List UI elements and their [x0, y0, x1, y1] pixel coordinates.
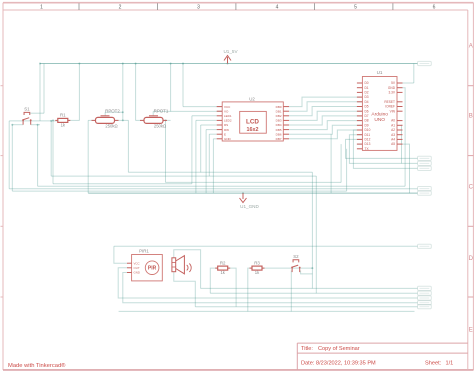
wire R3 right to long drop [262, 267, 312, 269]
Arduino U1 [362, 77, 397, 151]
svg-text:A4: A4 [391, 138, 395, 142]
svg-text:DB6: DB6 [276, 132, 282, 136]
svg-text:LED1: LED1 [224, 114, 232, 118]
wire bus y183.2 [53, 183, 192, 185]
svg-text:4: 4 [276, 5, 279, 11]
svg-text:DB3: DB3 [276, 119, 282, 123]
wire RPOT2 left lead [88, 119, 95, 121]
wire arduino right pin to y185.7 [403, 88, 406, 187]
svg-text:A: A [469, 44, 473, 50]
resistor R3 [252, 266, 262, 270]
wire bus to RPOT2 right/wiper [122, 64, 124, 121]
wire bus y190.6 [12, 190, 346, 192]
wire bus y287.9 [201, 287, 418, 289]
wire RPOT2 right lead [115, 119, 129, 121]
wire RPOT1 right lead [163, 119, 171, 121]
junction dots [39, 63, 41, 65]
wire LCD DB5 to arduino [289, 121, 362, 130]
svg-text:U2: U2 [249, 97, 255, 102]
LCD U2 [222, 102, 283, 141]
svg-text:R1: R1 [60, 113, 66, 118]
wire bus to S1 top post [43, 64, 45, 114]
wire PIR GND to bus y302.2 [123, 273, 418, 303]
svg-text:16x2: 16x2 [247, 127, 259, 133]
wire LCD DB1 to arduino [289, 102, 362, 111]
svg-text:RW: RW [224, 128, 229, 132]
net label tag [418, 61, 432, 65]
wire PIR OUT to bus y297.5 [118, 268, 417, 298]
svg-text:5: 5 [354, 5, 357, 11]
wire PIR VCC pin [114, 246, 127, 263]
wire 5V top bus y63 overdraw [40, 63, 418, 65]
svg-text:PIR1: PIR1 [139, 249, 149, 254]
svg-text:Copy of Seminar: Copy of Seminar [318, 346, 360, 352]
wire PIR VCC bus y245.8 [114, 245, 418, 247]
wire drop x330.6 [330, 134, 332, 193]
wire arduino pin drop x346.1 [346, 149, 348, 191]
wire bus y175.6 [51, 175, 316, 177]
svg-text:DB7: DB7 [276, 137, 282, 141]
svg-text:S2: S2 [293, 254, 299, 259]
resistor R2 [218, 266, 228, 270]
wire LCD RW drop [205, 130, 207, 194]
svg-text:GND: GND [134, 271, 140, 275]
wire arduino D pin drop x340.6 [340, 144, 342, 182]
svg-text:A5: A5 [391, 142, 395, 146]
wire RPOT1 wiper drop [152, 111, 154, 115]
wire LCD DB6 to arduino [289, 125, 362, 134]
wire LCD LED1 lead [192, 115, 217, 117]
svg-text:Date:: Date: [301, 361, 315, 367]
svg-text:D13: D13 [365, 142, 371, 146]
wire bus to RPOT1 left [135, 64, 137, 121]
wire R3 left drop [248, 268, 252, 311]
wire LCD DB2 to arduino [289, 107, 362, 116]
svg-text:E: E [469, 328, 473, 334]
svg-text:VCC: VCC [224, 105, 231, 109]
LCD pins [217, 107, 289, 139]
wire LCD E lead [209, 133, 216, 135]
wire RPOT2 right drop [127, 120, 129, 172]
wire LCD DB3 to arduino [289, 111, 362, 120]
wire arduino 5V pin lead [403, 82, 414, 84]
svg-text:RPOT1: RPOT1 [154, 108, 169, 113]
svg-text:Sheet:: Sheet: [425, 361, 442, 367]
svg-text:DB0: DB0 [276, 105, 282, 109]
svg-text:RS: RS [224, 123, 228, 127]
wire bus y171.8 [128, 171, 312, 173]
svg-text:2: 2 [119, 5, 122, 11]
wire bus y185.7 [38, 185, 406, 187]
PIR sensor PIR1 [132, 255, 163, 281]
wire arduino right gnd to gnd bus [403, 144, 410, 193]
power symbol U1_5V [224, 56, 231, 64]
svg-text:IOREF: IOREF [385, 105, 395, 109]
svg-text:U1_5V: U1_5V [223, 49, 238, 54]
svg-text:E: E [224, 132, 226, 136]
svg-text:D3: D3 [365, 95, 369, 99]
wire LCD LED2 drop [195, 120, 197, 193]
wire S1 left drop [8, 121, 10, 189]
ground symbol U1_GND [240, 193, 247, 202]
wire LCD DB4 to arduino [289, 116, 362, 125]
svg-text:D9: D9 [365, 123, 369, 127]
wire arduino pin to tag y167.9 [353, 130, 417, 168]
svg-text:VIN: VIN [390, 109, 396, 113]
wire RPOT1 left lead [136, 119, 144, 121]
svg-text:VO: VO [224, 109, 229, 113]
wire bus to R1 right [78, 64, 80, 121]
svg-text:RESET: RESET [384, 100, 395, 104]
svg-text:250kΩ: 250kΩ [105, 124, 117, 129]
net label tag [418, 296, 432, 300]
wire bus y306.2 [195, 306, 417, 308]
svg-text:B: B [469, 114, 473, 120]
net label tag [418, 286, 432, 290]
svg-text:DB1: DB1 [276, 109, 282, 113]
wire bus y188.3 long to tag [9, 188, 417, 190]
wire S1 BR drop [37, 125, 39, 187]
svg-text:R2: R2 [220, 260, 226, 265]
svg-text:D12: D12 [365, 138, 371, 142]
svg-text:A1: A1 [391, 123, 395, 127]
svg-text:Made with Tinkercad®: Made with Tinkercad® [8, 362, 66, 369]
svg-text:D11: D11 [365, 133, 371, 137]
wire LCD LED1 drop [191, 116, 193, 184]
wire to LCD VCC pin [183, 106, 222, 108]
svg-text:Title:: Title: [301, 346, 313, 352]
svg-text:D10: D10 [365, 128, 371, 132]
wire LCD RS drop [200, 125, 202, 172]
svg-text:A3: A3 [391, 133, 395, 137]
wire gnd bus y192.6 overdraw [88, 192, 417, 194]
wire S1 BL drop [11, 125, 13, 191]
lead [357, 143, 363, 145]
svg-text:DB5: DB5 [276, 128, 282, 132]
svg-text:GND: GND [224, 137, 232, 141]
svg-text:D0: D0 [365, 81, 369, 85]
svg-text:U1_GND: U1_GND [240, 204, 259, 209]
svg-text:6: 6 [433, 5, 436, 11]
svg-text:S1: S1 [24, 107, 30, 112]
wire S1 top post link [30, 112, 45, 114]
title block text [301, 346, 453, 367]
piezo PIEZO1 [172, 256, 191, 274]
wire LCD GND lead [213, 138, 216, 140]
net label tag [418, 244, 432, 248]
svg-text:PIR: PIR [148, 266, 157, 272]
svg-text:A2: A2 [391, 128, 395, 132]
svg-text:GND: GND [388, 86, 396, 90]
wire bus to LCD VCC [182, 64, 184, 107]
svg-text:VCC: VCC [134, 261, 140, 265]
wire bus to VO line [170, 64, 172, 112]
svg-text:D8: D8 [365, 119, 369, 123]
wire bus to S1 right area [39, 64, 41, 121]
svg-text:LCD: LCD [246, 119, 259, 126]
wire 5V top bus y63 [40, 63, 418, 65]
top column ticks [79, 3, 393, 10]
wire R1 left drop [52, 120, 54, 183]
wire RPOT1 right drop [165, 120, 167, 182]
wire long line through S1 [9, 120, 58, 122]
svg-text:C: C [469, 185, 474, 191]
wire long drop x315.8 [315, 176, 317, 293]
svg-text:8/23/2022, 10:39:35 PM: 8/23/2022, 10:39:35 PM [316, 361, 376, 367]
wire R2 left drop [210, 268, 217, 293]
svg-text:1/1: 1/1 [446, 361, 454, 367]
net label tag [418, 187, 432, 191]
svg-text:D1: D1 [365, 86, 369, 90]
wire arduino right pin to y162.9 [402, 125, 403, 163]
svg-text:D4: D4 [365, 100, 369, 104]
potentiometer RPOT1 [144, 117, 163, 123]
wire RPOT2 left drop to gnd bus [87, 120, 89, 193]
wire arduino pin to tag y162.9 [349, 135, 417, 164]
net label tag [418, 301, 432, 305]
wire LCD LED2 lead [196, 119, 217, 121]
resistor R1 [58, 118, 68, 122]
net label tag [418, 305, 432, 309]
right row letters A-E [469, 44, 474, 334]
wire piezo bottom [174, 272, 196, 307]
pushbutton S2 [291, 260, 299, 272]
svg-text:DB4: DB4 [276, 123, 282, 127]
wire LCD DB7 to arduino [289, 130, 362, 139]
wire S2 right link [301, 271, 313, 274]
svg-text:RPOT2: RPOT2 [105, 108, 120, 113]
net label tag [418, 166, 432, 170]
svg-text:LED2: LED2 [224, 119, 232, 123]
wire RPOT2 wiper drop [104, 112, 106, 116]
svg-text:D2: D2 [365, 91, 369, 95]
svg-text:3: 3 [197, 5, 200, 11]
svg-text:250kΩ: 250kΩ [154, 124, 166, 129]
wire LCD GND drop [212, 139, 214, 193]
svg-text:Arduino: Arduino [371, 112, 388, 118]
svg-text:OUT: OUT [134, 266, 140, 270]
top column numbers 1-6 [40, 5, 436, 11]
net label tag [418, 191, 432, 195]
wire gnd bus y192.6 [88, 192, 417, 194]
wire R2 right drop [228, 268, 236, 307]
wire drop x50.7 [50, 121, 52, 176]
Arduino pins [357, 83, 403, 149]
svg-text:A0: A0 [391, 119, 395, 123]
svg-text:1: 1 [40, 5, 43, 11]
svg-text:D7: D7 [365, 114, 369, 118]
svg-text:DB2: DB2 [276, 114, 282, 118]
svg-text:D5: D5 [365, 105, 369, 109]
wire bus y292.7 [210, 292, 417, 294]
svg-text:UNO: UNO [374, 117, 385, 123]
net label tag [418, 156, 432, 160]
svg-text:3.3V: 3.3V [388, 91, 395, 95]
svg-text:R3: R3 [254, 260, 260, 265]
wire piezo top [174, 250, 201, 289]
net label tag [418, 161, 432, 165]
wire arduino pin to tag y157.9 [346, 139, 418, 158]
wire S2 left drop [290, 271, 292, 312]
wire long drop x311.9 [311, 172, 313, 288]
wire bottom bus y310.9 [119, 310, 415, 312]
wire S1 BR lead [31, 124, 40, 126]
wire S1 BL lead [12, 124, 23, 126]
wire LCD DB0 to arduino [289, 97, 362, 107]
right row ticks [1, 86, 474, 297]
wire LCD RW lead [206, 129, 217, 131]
wire RPOT1 wiper to LCD VO [153, 110, 222, 112]
wire R1 right lead [68, 119, 80, 121]
net label tag [418, 291, 432, 295]
svg-text:U1: U1 [377, 70, 383, 75]
wire bus y181.9 long [166, 181, 342, 183]
svg-text:D: D [469, 256, 474, 262]
wire bus to arduino 5V pin [413, 64, 415, 84]
pushbutton S1 [22, 112, 30, 124]
potentiometer RPOT2 [96, 117, 115, 123]
title block [297, 343, 468, 370]
wire RPOT2 wiper link [105, 111, 123, 113]
wire LCD RS lead [201, 124, 217, 126]
svg-text:D6: D6 [365, 109, 369, 113]
wire LCD E drop [208, 134, 210, 176]
